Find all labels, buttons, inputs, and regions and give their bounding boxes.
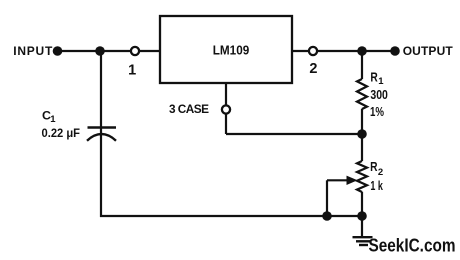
resistor R1 (357, 71, 388, 119)
output terminal (390, 46, 400, 56)
wire input rail (58, 50, 160, 52)
input terminal (53, 46, 63, 56)
wire left vertical to capacitor (100, 51, 102, 134)
node wiper-bottom junction (322, 211, 332, 221)
wire case to R1 bottom (226, 133, 362, 135)
wire pin2 to output (292, 50, 395, 52)
wire wiper vertical (326, 180, 328, 216)
svg-text:2: 2 (378, 167, 383, 178)
wire R1 bottom lead (361, 109, 363, 134)
wire ground stub (361, 216, 363, 237)
svg-text:300: 300 (370, 88, 388, 102)
wire R2 top lead (361, 134, 363, 161)
svg-text:SeekIC.com: SeekIC.com (369, 235, 456, 256)
svg-text:INPUT: INPUT (13, 44, 53, 58)
node input junction (95, 46, 105, 56)
wire capacitor to bottom rail (100, 134, 102, 218)
svg-text:1: 1 (378, 76, 384, 87)
svg-text:LM109: LM109 (213, 44, 250, 58)
svg-text:1: 1 (50, 114, 56, 125)
wire bottom rail (100, 215, 362, 217)
svg-text:2: 2 (309, 61, 317, 77)
node ground junction (357, 211, 367, 221)
node output junction (357, 46, 367, 56)
svg-text:R: R (370, 160, 377, 174)
potentiometer R2 (347, 160, 384, 193)
pin 3 CASE (169, 102, 230, 116)
regulator U1 LM109 (160, 16, 292, 83)
svg-text:1: 1 (128, 63, 136, 79)
wire case pin vertical (225, 83, 227, 134)
svg-text:3 CASE: 3 CASE (169, 102, 209, 116)
pin 2 (309, 47, 318, 77)
wire wiper horizontal (327, 179, 348, 181)
svg-text:0.22 μF: 0.22 μF (42, 126, 81, 140)
ground (353, 237, 373, 245)
svg-text:1 k: 1 k (370, 179, 383, 193)
svg-text:1%: 1% (370, 105, 384, 119)
svg-text:R: R (370, 71, 377, 85)
wire R1 top lead (361, 51, 363, 79)
capacitor C1 (42, 108, 117, 140)
wire R2 bottom lead (361, 192, 363, 216)
node R1-R2-case junction (357, 129, 367, 139)
pin 1 (128, 47, 139, 79)
svg-text:OUTPUT: OUTPUT (403, 44, 454, 58)
